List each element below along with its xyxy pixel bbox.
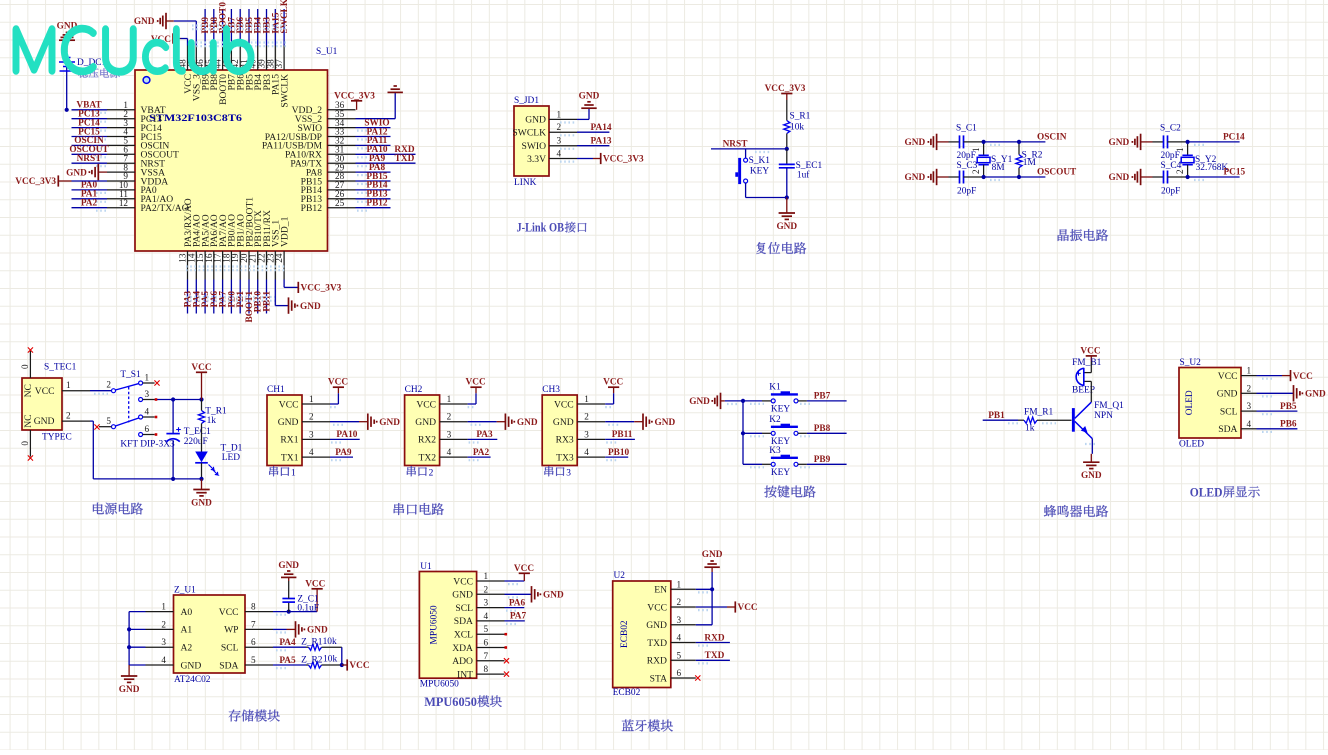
wire to key K1 [743,400,762,402]
svg-text:1: 1 [1175,147,1185,152]
svg-text:GND: GND [191,499,212,509]
junction [340,663,344,667]
svg-text:1M: 1M [1023,158,1037,168]
svg-text:GND: GND [181,660,202,671]
caption bluetooth module [622,720,673,732]
svg-text:NC: NC [23,384,34,397]
wire VSS_3 to ground [166,20,174,22]
svg-text:2: 2 [1247,383,1252,393]
svg-text:ECB02: ECB02 [620,620,630,648]
svg-text:RX3: RX3 [556,435,574,446]
svg-text:TXD: TXD [395,154,415,164]
svg-text:3.3V: 3.3V [527,154,546,165]
svg-text:S_C4: S_C4 [1161,161,1182,171]
svg-text:SWCLK: SWCLK [512,128,546,139]
svg-text:GND: GND [1081,471,1102,481]
ground above Z_C1 [287,570,290,572]
no-connect XDA [505,646,508,649]
ground MPU [531,586,533,602]
wire VCC [1257,375,1283,377]
wire gnd to EN and GND pins [711,567,713,572]
wire RXD [696,642,730,644]
connector CH2 body [405,395,440,466]
TYPEC pin 1 [62,390,90,392]
junction [199,477,203,481]
svg-text:VCC: VCC [466,378,486,388]
svg-text:VCC: VCC [35,386,55,397]
svg-text:SDA: SDA [219,660,238,671]
MCU pin names [141,74,323,247]
display U2 body [1179,368,1241,439]
wire TXD [696,659,730,661]
svg-text:VCC: VCC [603,378,623,388]
svg-text:GND: GND [517,418,538,428]
svg-text:VCC: VCC [191,363,211,373]
svg-text:1: 1 [557,109,562,119]
junction [785,147,789,151]
svg-text:7: 7 [251,619,256,629]
svg-text:TXD: TXD [647,638,667,649]
svg-text:KEY: KEY [771,468,790,478]
bluetooth U2 pins [646,579,696,684]
wire key bottom [745,183,747,198]
regulator LD_DC1 battery symbol [64,57,71,59]
svg-text:1: 1 [584,394,589,404]
svg-text:XCL: XCL [454,630,473,641]
svg-text:12: 12 [119,198,129,208]
wire VCC to power [468,403,476,405]
junction [741,399,745,403]
svg-text:CH3: CH3 [542,385,560,395]
wire PB5 [1257,410,1298,412]
wire GND [605,421,634,423]
svg-text:RXD: RXD [704,633,724,643]
wire to key [745,149,747,158]
svg-text:MPU6050: MPU6050 [424,695,477,709]
resistor FM_R1 1k [1018,419,1024,421]
svg-text:8M: 8M [992,163,1006,173]
svg-text:MPU6050: MPU6050 [420,680,459,690]
junction [785,195,789,199]
svg-text:VCC: VCC [514,564,534,574]
svg-text:PB5: PB5 [1280,402,1297,412]
svg-text:TXD: TXD [705,651,725,661]
svg-text:GND: GND [905,138,926,148]
svg-text:GND: GND [525,115,546,126]
svg-text:S_TEC1: S_TEC1 [44,363,77,373]
svg-text:PA14: PA14 [591,123,612,133]
svg-text:FM_B1: FM_B1 [1072,358,1101,368]
svg-text:EN: EN [654,585,667,596]
svg-text:10k: 10k [323,655,337,665]
svg-text:1: 1 [145,373,150,383]
caption reset circuit [756,242,806,254]
svg-text:GND: GND [34,416,55,427]
svg-text:T_R1: T_R1 [205,407,227,417]
wire PB1 [983,419,1018,421]
wire PA7 [505,620,525,622]
wire PA2 [468,456,491,458]
MCU bottom net wires and labels [184,280,273,323]
svg-text:S_U2: S_U2 [1180,358,1202,368]
svg-text:3: 3 [309,429,314,439]
power port VCC_3V3 JD1 [600,153,602,164]
svg-text:TX3: TX3 [556,452,574,463]
ground [504,414,506,430]
svg-text:VDD_1: VDD_1 [279,216,290,247]
key K2 [771,431,775,435]
buzzer FM_B1 [1090,362,1092,373]
svg-text:XDA: XDA [452,643,473,654]
svg-text:1: 1 [66,380,71,390]
svg-text:2: 2 [557,122,562,132]
svg-text:4: 4 [145,407,150,417]
svg-text:GND: GND [579,92,600,102]
caption serial circuit [394,503,444,515]
svg-text:RXD: RXD [647,656,667,667]
junction VBAT [65,108,69,112]
key K1 [771,399,775,403]
wire VCC [696,606,727,608]
svg-text:STA: STA [650,673,667,684]
svg-text:GND: GND [66,168,87,178]
svg-text:OSCOUT: OSCOUT [1037,167,1077,177]
svg-text:2: 2 [677,597,682,607]
svg-text:20pF: 20pF [957,187,976,197]
svg-text:VCC: VCC [647,602,667,613]
caption buzzer circuit [1044,505,1108,517]
svg-text:GND: GND [553,417,574,428]
svg-text:NPN: NPN [1094,411,1113,421]
svg-text:4: 4 [309,447,314,457]
svg-text:GND: GND [452,590,473,601]
key K3 [771,462,775,466]
svg-text:PB10: PB10 [608,448,630,458]
svg-text:1k: 1k [1025,424,1035,434]
svg-text:VCC_3V3: VCC_3V3 [301,284,342,294]
svg-text:TX2: TX2 [419,452,437,463]
svg-text:INT: INT [457,669,473,680]
ground JD1 [587,101,590,103]
svg-text:VCC: VCC [305,579,325,589]
capacitor S_C2 20pF [1153,135,1188,148]
power port VCC bluetooth [734,601,736,612]
svg-text:KEY: KEY [771,405,790,415]
wire buzzer to collector [1090,381,1092,402]
crystal S_Y1 8M [971,142,990,177]
svg-text:GND: GND [415,417,436,428]
svg-text:VCC: VCC [554,399,574,410]
svg-text:3: 3 [566,469,571,479]
svg-text:2: 2 [106,380,111,390]
svg-text:MPU6050: MPU6050 [429,605,439,644]
connector JD1 pins [512,109,577,164]
no-connect INT [504,672,509,677]
wire VCC to pin 48 [181,38,188,40]
resistor S_R1 10k [786,100,788,121]
svg-text:10k: 10k [323,637,337,647]
svg-text:220uF: 220uF [184,437,208,447]
svg-text:VCC: VCC [1218,371,1238,382]
wire address bus to ground [129,612,145,665]
connector CH3 body [542,395,577,466]
sensor U1 pins [452,571,504,680]
wire VCC to power [330,403,338,405]
junction [982,140,986,144]
svg-text:GND: GND [119,685,140,695]
capacitor T_EC1 220uF [172,400,174,434]
svg-text:0: 0 [20,441,30,446]
sensor U1 body [419,572,476,679]
logo MCUclub [14,26,253,74]
svg-text:TYPEC: TYPEC [42,433,72,443]
svg-text:1: 1 [971,147,981,152]
svg-text:GND: GND [278,561,299,571]
ground OLED [1293,385,1295,401]
connector CH2 pins [415,394,467,463]
svg-text:S_EC1: S_EC1 [796,161,823,171]
transistor FM_Q1 NPN [1072,408,1075,432]
junction [1186,140,1190,144]
svg-text:U1: U1 [420,562,432,572]
svg-text:S_C3: S_C3 [957,161,978,171]
ground [642,414,644,430]
svg-text:PA3: PA3 [476,430,493,440]
svg-text:4: 4 [677,633,682,643]
svg-text:0.1uF: 0.1uF [297,603,319,613]
svg-text:GND: GND [689,397,710,407]
MCU left net wires and labels [69,101,109,211]
junction [127,627,131,631]
wire GND [330,421,359,423]
wire gnd to bus [725,400,743,402]
wire SCL [273,646,306,648]
ground [1109,169,1153,185]
svg-text:S_C1: S_C1 [956,124,977,134]
ground WP [295,621,297,637]
wire NRST [711,148,787,150]
TYPEC bottom pin 0 [29,430,31,457]
svg-text:OLED: OLED [1190,486,1223,500]
svg-text:7: 7 [484,651,489,661]
TYPEC top pin 0 [29,351,31,378]
svg-text:GND: GND [1217,389,1238,400]
svg-text:PA4: PA4 [279,638,296,648]
junction [1186,175,1190,179]
eeprom Z_U1 pins [146,602,274,672]
junction [287,610,291,614]
MCU top net wires and labels [201,0,290,46]
capacitor S_C3 20pF [949,171,984,184]
svg-text:T_S1: T_S1 [120,370,141,380]
svg-text:GND: GND [655,418,676,428]
wire PA14 [577,131,609,133]
junction [171,477,175,481]
svg-text:2: 2 [429,469,434,479]
power port VCC pullups [346,659,348,670]
resistor Z_R2 10k [306,664,309,666]
ground power [201,479,203,490]
switch pin1 no-connect [143,382,155,384]
svg-text:1: 1 [161,602,166,612]
svg-text:PA2/TX/AO: PA2/TX/AO [141,203,189,214]
wire pin1 to switch [90,390,112,392]
svg-text:3: 3 [161,637,166,647]
svg-text:LINK: LINK [514,178,537,188]
eeprom Z_U1 body [174,595,246,673]
caption crystal circuit [1058,229,1108,241]
svg-text:SDA: SDA [454,616,473,627]
connector CH1 pins [278,394,330,463]
svg-text:25: 25 [335,198,345,208]
svg-text:KEY: KEY [750,167,769,177]
ground reset [786,198,788,214]
svg-text:ECB02: ECB02 [613,688,641,698]
svg-text:SCL: SCL [1220,406,1238,417]
power port VCC_3V3 at VDD_1 [297,282,299,293]
svg-text:3: 3 [484,598,489,608]
svg-text:VCC_3V3: VCC_3V3 [15,177,56,187]
MCU pin-1 marker [143,77,150,84]
svg-text:2: 2 [584,412,589,422]
svg-text:PA13: PA13 [591,137,612,147]
svg-text:2: 2 [447,412,452,422]
wire VCC pin8 [273,611,317,613]
svg-text:S_K1: S_K1 [749,156,771,166]
wire OSCIN [984,141,1046,143]
svg-text:0: 0 [20,364,30,369]
wire GND [1257,392,1294,394]
svg-text:1: 1 [447,394,452,404]
svg-text:J-Link OB: J-Link OB [517,221,565,235]
svg-text:OLED: OLED [1185,390,1195,415]
svg-text:S_U1: S_U1 [316,47,338,57]
svg-text:CH2: CH2 [405,385,423,395]
svg-text:LED: LED [222,453,240,463]
svg-text:PB12: PB12 [301,203,323,214]
wire OSCOUT [984,176,1046,178]
svg-text:VCC_3V3: VCC_3V3 [765,84,806,94]
junction [127,645,131,649]
svg-text:4: 4 [161,655,166,665]
svg-text:8: 8 [251,602,256,612]
caption storage module [229,710,280,722]
svg-text:VCC_3V3: VCC_3V3 [334,91,375,101]
svg-text:VCC: VCC [328,378,348,388]
wire PB11 [605,438,635,440]
capacitor S_EC1 1uf [786,149,788,165]
svg-text:SWIO: SWIO [521,141,546,152]
capacitor S_C1 20pF [949,135,984,148]
wire VBAT from regulator [66,52,68,110]
caption key circuit [764,486,815,498]
junction [982,175,986,179]
wire VSS_1 to ground [274,280,276,306]
bluetooth U2 body [613,581,671,688]
capacitor Z_C1 0.1uF [288,602,290,612]
ground at VSS_2 pin 35 [394,85,397,87]
connector CH1 body [267,395,302,466]
MCU right net wires and labels [356,118,416,210]
svg-text:3: 3 [447,429,452,439]
svg-text:Z_U1: Z_U1 [174,586,196,596]
junction [199,397,203,401]
wire emitter to ground [1091,439,1093,454]
svg-text:VCC: VCC [349,661,369,671]
svg-text:GND: GND [1109,173,1130,183]
svg-text:PB6: PB6 [1280,420,1297,430]
keys bus [742,401,744,464]
svg-text:PB11: PB11 [612,430,633,440]
svg-text:SDA: SDA [1218,424,1237,435]
svg-text:PB9: PB9 [814,455,831,465]
svg-text:PB12: PB12 [366,199,388,209]
wire to key K2 [743,432,762,434]
svg-text:2: 2 [484,584,489,594]
ground [367,414,369,430]
wire PA10 [330,438,360,440]
resistor S_R2 1M [1016,142,1022,177]
svg-text:Z_R2: Z_R2 [301,655,323,665]
svg-text:3: 3 [557,136,562,146]
svg-text:OLED: OLED [1179,440,1204,450]
svg-text:OSCIN: OSCIN [1037,132,1067,142]
wire pullup join [341,647,343,665]
svg-text:2: 2 [971,169,981,174]
no-connect XCL [505,633,508,636]
label 2 [407,466,427,476]
svg-text:GND: GND [1305,390,1326,400]
switch T_S1 [112,389,116,393]
wire to VCC [342,664,347,666]
svg-text:1: 1 [677,579,682,589]
svg-text:K3: K3 [769,446,781,456]
svg-text:GND: GND [1109,138,1130,148]
svg-text:2: 2 [161,619,166,629]
svg-text:1: 1 [484,571,489,581]
svg-text:20pF: 20pF [1161,187,1180,197]
svg-text:VCC: VCC [738,603,758,613]
svg-text:4: 4 [584,447,589,457]
no-connect ADO [504,658,509,663]
svg-text:PB7: PB7 [814,392,831,402]
svg-text:3: 3 [1247,401,1252,411]
svg-text:2: 2 [1175,169,1185,174]
svg-text:VCC: VCC [1293,372,1313,382]
svg-text:4: 4 [484,611,489,621]
wire VSS_2 to ground [356,118,396,120]
wire GND [505,593,532,595]
capacitor S_C4 20pF [1153,171,1188,184]
svg-text:ADO: ADO [452,656,473,667]
junction [1017,140,1021,144]
power port VCC_3V3 at VDDA pin 9 [58,180,71,182]
svg-text:GND: GND [300,302,321,312]
svg-text:5: 5 [484,624,489,634]
svg-text:S_JD1: S_JD1 [514,96,539,106]
key S_K1 [738,158,741,184]
svg-text:GND: GND [379,418,400,428]
wire SDA [273,664,306,666]
svg-text:6: 6 [677,668,682,678]
svg-text:CH1: CH1 [267,385,285,395]
svg-text:3: 3 [584,429,589,439]
power port VCC OLED [1290,370,1292,381]
MCU body U1 STM32F103C8T6 [135,70,328,251]
svg-text:NC: NC [23,414,34,427]
wire PB9 [798,463,807,465]
svg-text:PA6: PA6 [509,598,526,608]
